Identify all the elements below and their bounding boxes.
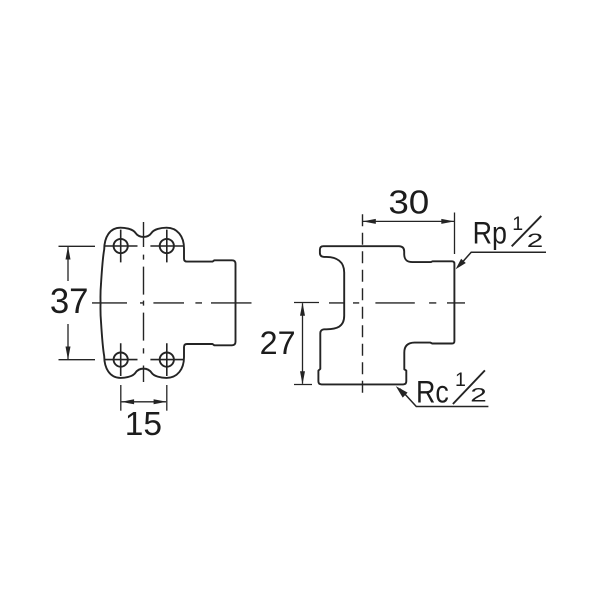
- svg-text:27: 27: [260, 325, 296, 361]
- arrow up 27: [300, 303, 305, 316]
- svg-text:37: 37: [50, 282, 89, 321]
- hole center crosses: [104, 230, 183, 376]
- cross bottom-right hole: [150, 343, 183, 376]
- dimension line: [363, 220, 454, 222]
- hole top-left: [114, 239, 128, 253]
- extension line bottom: [59, 359, 96, 361]
- extension line left: [120, 385, 122, 411]
- cross top-left hole: [104, 230, 137, 263]
- fraction 2 Rp: [527, 230, 544, 252]
- arrow down 27: [300, 371, 305, 384]
- arrow down 37: [66, 347, 71, 360]
- flange outline with four lobes and right socket: [100, 228, 235, 378]
- vertical centerline: [143, 222, 145, 382]
- hole top-right: [160, 239, 174, 253]
- arrow right 30: [441, 219, 454, 224]
- svg-text:Rc: Rc: [416, 374, 449, 410]
- body outline: [318, 246, 454, 384]
- arrow right 15: [154, 399, 167, 404]
- hole bottom-right: [160, 353, 174, 367]
- extension line top: [294, 302, 319, 304]
- dimension line (broken for text): [67, 247, 69, 359]
- cross bottom-left hole: [104, 343, 137, 376]
- svg-text:2: 2: [470, 384, 487, 406]
- arrowhead Rp: [456, 259, 466, 270]
- fraction slash Rp: [512, 216, 542, 246]
- dimension line: [302, 303, 304, 384]
- fraction slash Rc: [453, 370, 485, 404]
- horizontal centerline: [92, 302, 252, 304]
- svg-text:Rp: Rp: [473, 215, 507, 251]
- leader Rp: [459, 252, 546, 266]
- fraction 2 Rc: [470, 384, 487, 406]
- leader Rc: [400, 389, 488, 407]
- arrowhead Rc: [396, 386, 408, 398]
- extension line bottom: [294, 384, 312, 386]
- extension line right: [166, 385, 168, 411]
- centerlines of left view (dash-dot): [92, 222, 252, 382]
- dimension line: [122, 401, 167, 403]
- text Rc: [416, 374, 449, 410]
- svg-text:30: 30: [388, 184, 429, 221]
- arrow left 15: [121, 399, 134, 404]
- svg-text:1: 1: [512, 213, 523, 235]
- svg-text:1: 1: [455, 369, 466, 391]
- arrow up 37: [66, 246, 71, 259]
- hole bottom-left: [114, 353, 128, 367]
- text 30: [388, 184, 429, 221]
- cross top-right hole: [150, 230, 183, 263]
- svg-text:2: 2: [527, 230, 544, 252]
- extension line top: [59, 245, 96, 247]
- arrow left 30: [363, 219, 376, 224]
- text Rp: [473, 215, 507, 251]
- centerline horizontal right view: [329, 302, 465, 304]
- dashed face line (gauge plane): [362, 214, 364, 398]
- svg-text:15: 15: [125, 406, 162, 443]
- extension line right: [454, 213, 456, 255]
